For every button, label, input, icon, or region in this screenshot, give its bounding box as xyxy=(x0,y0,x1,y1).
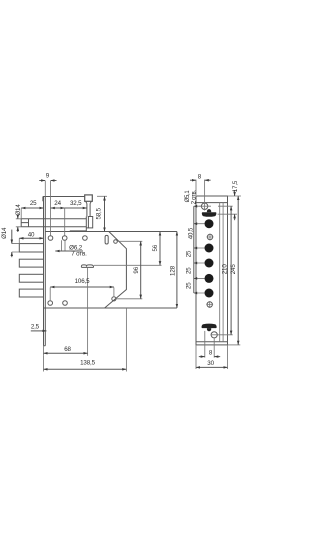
svg-text:96: 96 xyxy=(133,266,140,273)
svg-text:40: 40 xyxy=(28,232,35,239)
svg-text:128: 128 xyxy=(170,265,177,276)
svg-text:2 отв.: 2 отв. xyxy=(192,190,198,205)
svg-text:2,5: 2,5 xyxy=(31,323,40,330)
svg-text:Ø5,1: Ø5,1 xyxy=(185,190,191,203)
svg-text:56: 56 xyxy=(152,244,159,251)
svg-text:24: 24 xyxy=(54,200,61,207)
svg-text:106,5: 106,5 xyxy=(75,278,90,285)
svg-text:138,5: 138,5 xyxy=(80,360,95,367)
svg-text:210: 210 xyxy=(222,264,229,275)
svg-text:9: 9 xyxy=(46,172,50,179)
svg-text:30: 30 xyxy=(207,360,214,367)
svg-text:245: 245 xyxy=(230,264,237,275)
svg-text:25: 25 xyxy=(30,200,37,207)
svg-text:68: 68 xyxy=(64,346,71,353)
svg-text:8: 8 xyxy=(198,173,202,180)
svg-text:25: 25 xyxy=(185,250,192,257)
svg-text:58,5: 58,5 xyxy=(96,207,103,219)
svg-text:40,5: 40,5 xyxy=(188,227,195,239)
svg-text:32,5: 32,5 xyxy=(70,200,82,207)
svg-text:Ø14: Ø14 xyxy=(15,204,22,216)
svg-text:25: 25 xyxy=(185,267,192,274)
svg-text:8: 8 xyxy=(209,350,213,357)
svg-text:7 отв.: 7 отв. xyxy=(71,250,87,257)
svg-text:25: 25 xyxy=(185,282,192,289)
svg-text:Ø14: Ø14 xyxy=(1,227,8,239)
svg-text:17,5: 17,5 xyxy=(232,180,239,192)
